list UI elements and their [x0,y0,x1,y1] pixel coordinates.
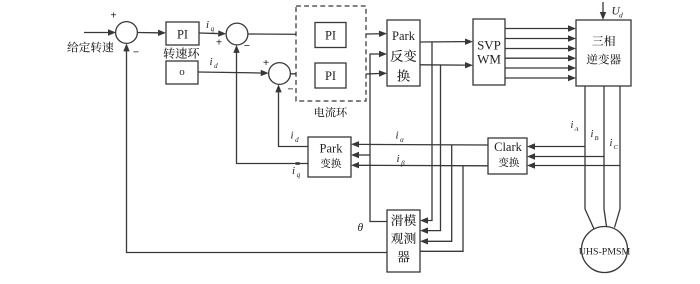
svg-text:+: + [263,57,269,69]
svg-text:PI: PI [325,69,336,83]
svg-text:β: β [400,159,405,167]
svg-text:B: B [595,135,599,142]
svg-text:UHS-PMSM: UHS-PMSM [579,247,631,258]
svg-text:SVP: SVP [477,38,501,53]
svg-text:−: − [133,46,139,58]
svg-text:Park: Park [320,142,344,156]
svg-text:i: i [291,130,294,142]
svg-text:i: i [591,129,594,140]
svg-text:q: q [211,25,215,33]
svg-text:C: C [614,144,619,151]
svg-text:d: d [295,136,299,144]
svg-text:θ: θ [358,222,364,234]
svg-text:WM: WM [477,52,501,67]
svg-text:i: i [292,165,295,177]
svg-text:d: d [619,11,623,20]
svg-text:i: i [571,120,574,131]
svg-text:d: d [214,62,218,70]
svg-text:i: i [396,130,399,142]
svg-text:+: + [216,37,222,49]
svg-text:−: − [287,84,293,96]
svg-text:PI: PI [325,28,336,42]
svg-text:Clark: Clark [494,140,523,154]
svg-text:α: α [400,136,404,144]
svg-text:+: + [110,10,116,22]
svg-text:i: i [610,138,613,149]
svg-text:PI: PI [177,27,188,41]
svg-text:A: A [574,126,579,133]
svg-text:i: i [397,153,400,165]
svg-text:i: i [206,19,209,31]
svg-text:−: − [244,40,250,52]
svg-text:Park: Park [392,29,416,43]
svg-text:i: i [210,56,213,68]
svg-text:o: o [179,66,185,78]
svg-text:q: q [297,171,301,179]
